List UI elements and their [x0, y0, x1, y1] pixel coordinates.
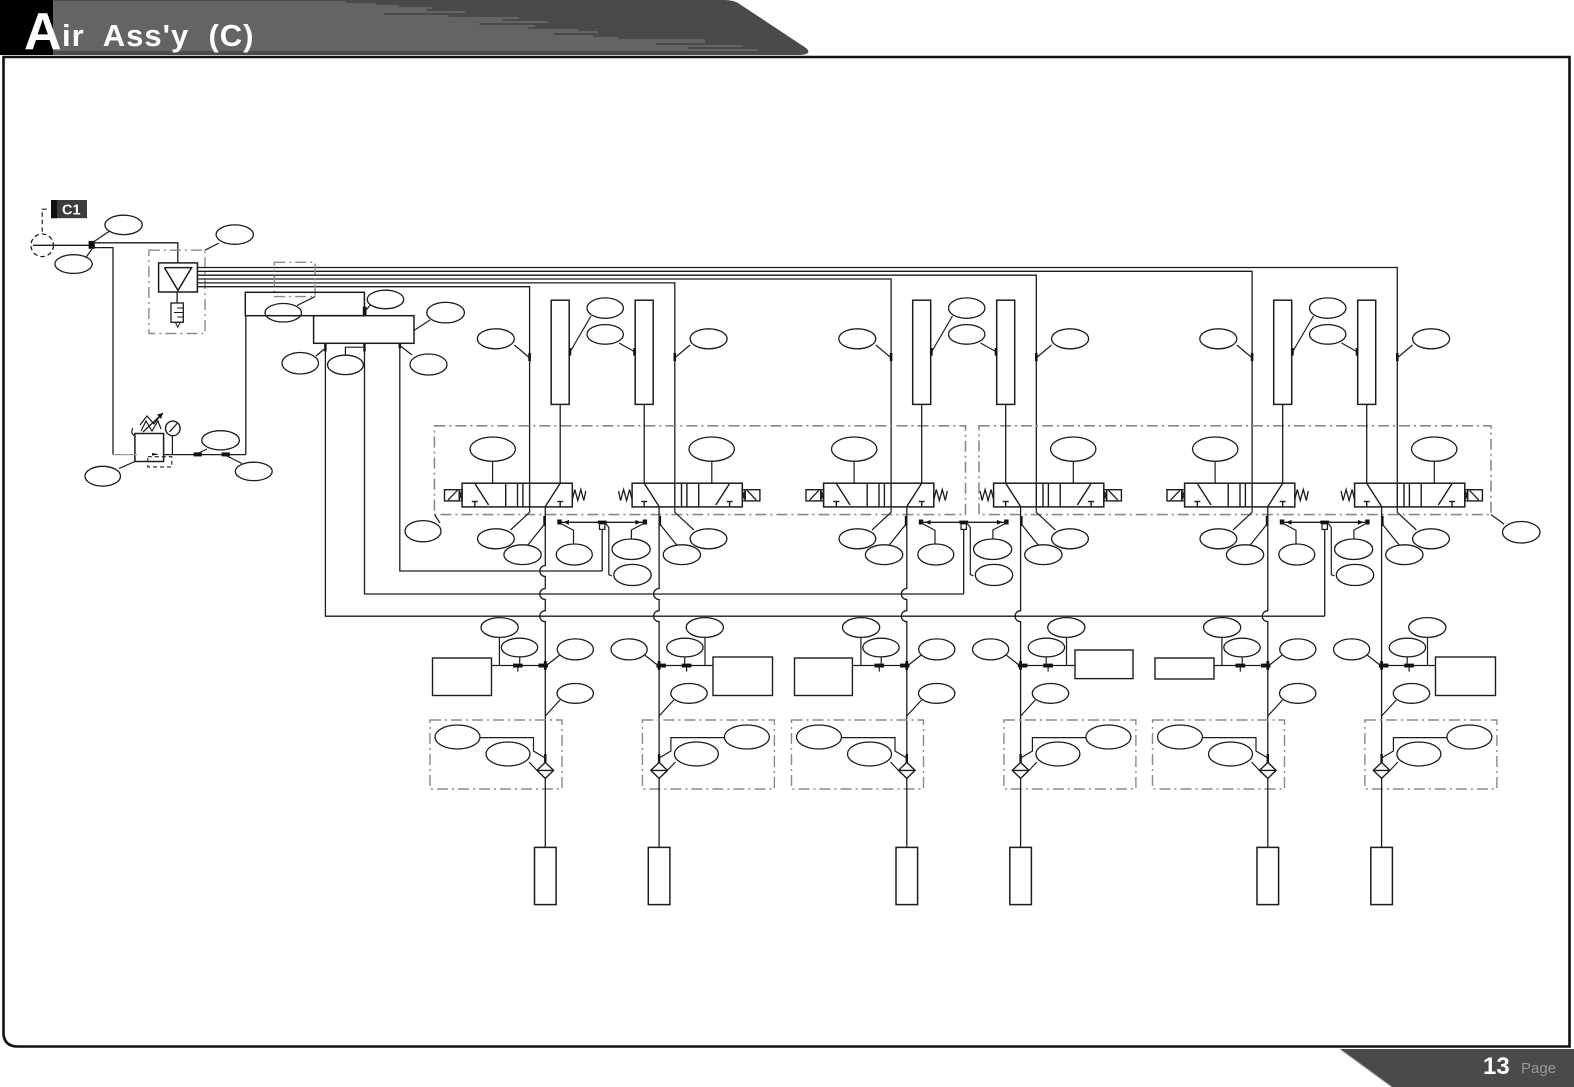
balloon (SC3 E)	[863, 638, 899, 663]
air unit body	[159, 263, 198, 292]
port stub SC4	[1047, 668, 1049, 672]
balloon (tube below SC4)	[1021, 684, 1069, 717]
svg-text:ir Ass'y (C): ir Ass'y (C)	[62, 18, 255, 53]
balloon (V6 exhaust a)	[1413, 529, 1450, 549]
balloon (V3 exhaust a)	[839, 529, 876, 549]
balloon (diamond 2 b)	[668, 742, 719, 770]
fitting (SC1 2)	[539, 664, 549, 668]
balloon (SC5 F)	[1270, 639, 1316, 665]
port fitting on base plate	[363, 307, 367, 316]
wire: V2 working line (down)	[654, 507, 660, 666]
balloon (SC2 E)	[667, 638, 703, 663]
manifold outlet fitting 3	[399, 343, 401, 348]
balloon (pair 2 R-line right lower)	[967, 524, 1012, 586]
balloon (diamond 2 a, elbow)	[660, 725, 770, 758]
balloon (SC6 D)	[1409, 618, 1446, 666]
fitting (above diamond 1)	[544, 754, 546, 762]
flow arrows pair 3	[1286, 520, 1292, 525]
balloon (V6 exhaust b)	[1386, 545, 1423, 565]
balloon (supply fitting V1)	[477, 329, 528, 357]
check valve diamond D1	[537, 762, 554, 778]
junction (V6 R-line)	[1365, 520, 1369, 525]
balloon (SC5 E)	[1224, 638, 1260, 663]
regulator REG1	[132, 413, 164, 462]
balloon (cylinder pair 1 lower)	[587, 325, 636, 356]
balloon (V2 exhaust a)	[690, 529, 727, 549]
wire: V4 working line (lower)	[1020, 666, 1022, 755]
fitting (above diamond 3)	[906, 754, 908, 762]
wire: V1 exhaust stub	[511, 507, 530, 530]
balloon (valve V2)	[689, 437, 734, 483]
fitting (SC3 2)	[900, 664, 910, 668]
balloon (group box A)	[405, 515, 441, 542]
cylinder CYL3	[913, 300, 931, 404]
balloon (pair 2 R-line left)	[918, 524, 954, 565]
fitting (outlet 1)	[194, 452, 202, 456]
wire: V4 port leader	[1021, 524, 1039, 546]
balloon (SC1 F)	[547, 639, 593, 665]
fitting (SC6 1)	[1404, 664, 1414, 668]
balloon (V1 exhaust a)	[478, 529, 515, 549]
silencer SL2	[648, 847, 670, 904]
fitting (V3 A-line)	[905, 516, 908, 526]
cylinder CYL5	[1274, 300, 1292, 404]
wire: V1 working line (down)	[540, 507, 546, 666]
check valve diamond D2	[651, 762, 668, 778]
balloon (outlet 1)	[282, 349, 324, 374]
balloon (outlet fitting 2)	[226, 456, 272, 481]
fitting (above diamond 4)	[1019, 754, 1021, 762]
header banner	[0, 0, 808, 61]
speed controller box SC4	[1075, 650, 1133, 679]
wire: V2 working line (lower)	[658, 666, 660, 755]
balloon (tube below SC3)	[907, 684, 955, 717]
balloon (SC6 E)	[1389, 638, 1425, 663]
wire: V5 working line (lower)	[1267, 666, 1269, 755]
speed controller SC5 line	[1214, 665, 1268, 667]
manifold base plate	[245, 292, 364, 315]
port stub SC1	[517, 668, 519, 672]
fitting (supply drop V4)	[1035, 353, 1038, 361]
wire: pair 3 R-port link	[1283, 521, 1367, 523]
balloon (cylinder pair 1 upper)	[569, 298, 624, 356]
valve V3 (5/2 solenoid valve)	[806, 483, 947, 507]
wire: pair 1 R-port link	[560, 521, 644, 523]
manifold outlet fitting 1	[324, 343, 326, 351]
junction (V4 R-line)	[1004, 520, 1008, 525]
tube bundle marker	[274, 262, 315, 296]
speed controller SC3 line	[853, 665, 907, 667]
wire: V1 working line (lower)	[544, 666, 546, 755]
flow arrows pair 2	[925, 520, 931, 525]
inlet fitting	[89, 241, 95, 249]
balloon (diamond 5 a, elbow)	[1158, 725, 1268, 758]
exhaust bus 3	[325, 352, 1324, 617]
fitting (outlet 2)	[222, 452, 230, 456]
wire: pair 3 exhaust to bus	[1324, 529, 1326, 616]
balloon (pair 1 R-line left)	[556, 524, 592, 565]
valve manifold group box B	[979, 426, 1491, 515]
wire: V2 port leader	[660, 524, 678, 546]
cylinder CYL1	[551, 300, 569, 404]
balloon (V4 exhaust b)	[1025, 545, 1062, 565]
valve V6 (5/2 solenoid valve)	[1341, 483, 1482, 507]
filter F1	[171, 303, 183, 327]
speed controller box SC6	[1436, 657, 1496, 696]
quick exhaust box L1	[430, 720, 562, 789]
fitting (above diamond 2)	[658, 754, 660, 762]
balloon (SC4 F)	[973, 639, 1019, 665]
wire: diamond 5 to silencer	[1267, 778, 1269, 847]
fitting (SC2 2)	[656, 664, 666, 668]
flow arrows pair 1	[564, 520, 570, 525]
balloon (air unit)	[205, 225, 253, 250]
cylinder CYL6	[1358, 300, 1376, 404]
quick exhaust box L3	[1153, 720, 1285, 789]
balloon (valve V5)	[1193, 437, 1238, 483]
balloon (V2 exhaust b)	[663, 545, 700, 565]
fitting (SC1 1)	[513, 664, 523, 668]
speed controller SC4 line	[1021, 665, 1075, 667]
wire: V5 working line (down)	[1262, 507, 1268, 666]
balloon (supply fitting V3)	[839, 329, 890, 357]
balloon (outlet 2, elbow leader)	[328, 347, 364, 374]
wire: pair 2 exhaust to bus	[963, 529, 965, 594]
balloon (diamond 1 b)	[486, 742, 537, 770]
port stub SC3	[878, 668, 880, 672]
wire: CYL1 to valve V1	[559, 404, 561, 483]
balloon (regulator)	[85, 462, 135, 487]
wire: V3 working line (lower)	[906, 666, 908, 755]
wire: diamond 1 to silencer	[544, 778, 546, 847]
svg-text:13: 13	[1483, 1053, 1510, 1080]
balloon (cylinder pair 3 upper)	[1291, 298, 1346, 356]
junction (V5 R-line)	[1280, 520, 1284, 525]
junction (V1 R-line)	[557, 520, 561, 525]
air supply unit U1 (enclosure)	[149, 250, 205, 333]
port stub SC6	[1408, 668, 1410, 672]
balloon (pair 3 R-line left)	[1279, 524, 1315, 565]
wire: diamond 4 to silencer	[1020, 778, 1022, 847]
wire: pair 1 exhaust to bus	[601, 529, 603, 571]
balloon (V4 exhaust a)	[1052, 529, 1089, 549]
valve V2 (5/2 solenoid valve)	[619, 483, 760, 507]
balloon (cylinder pair 3 lower)	[1310, 325, 1359, 356]
balloon (SC5 D)	[1204, 618, 1241, 666]
exhaust bus 1	[400, 348, 602, 571]
speed controller box SC3	[795, 658, 853, 696]
balloon (group box B)	[1491, 515, 1540, 543]
speed controller box SC2	[713, 657, 773, 696]
wire: riser to base plate	[245, 316, 247, 455]
manifold outlet fitting 2	[363, 343, 365, 351]
balloon (V1 exhaust b)	[504, 545, 541, 565]
fitting (V2 A-line)	[659, 516, 662, 526]
fitting (V6 A-line)	[1381, 516, 1384, 526]
exhaust bus 2	[365, 352, 964, 595]
air unit triangle	[164, 268, 191, 291]
silencer SL5	[1257, 847, 1279, 904]
speed controller SC2 line	[659, 665, 713, 667]
balloon (supply fitting V5)	[1200, 329, 1251, 357]
valve V1 (5/2 solenoid valve)	[445, 483, 586, 507]
balloon (tube below SC2)	[659, 684, 707, 717]
check valve diamond D5	[1260, 762, 1277, 778]
fitting (V4 A-line)	[1020, 516, 1023, 526]
balloon (tube below SC6)	[1382, 684, 1430, 717]
silencer SL1	[535, 847, 557, 904]
speed controller SC6 line	[1382, 665, 1436, 667]
valve manifold group box A	[434, 426, 965, 515]
wire: CYL2 to valve V2	[643, 404, 645, 483]
balloon (tube below SC1)	[545, 684, 593, 717]
fitting (SC4 1)	[1043, 664, 1053, 668]
wire: V5 exhaust stub	[1233, 507, 1252, 530]
speed controller box SC5	[1155, 658, 1214, 679]
supply tube bundle (6 lines)	[197, 268, 1397, 484]
svg-text:C1: C1	[62, 203, 81, 219]
wire: V3 exhaust stub	[872, 507, 891, 530]
wire: V1 port leader	[527, 524, 545, 546]
balloon (outlet 3)	[401, 347, 447, 376]
wire: regulator outlet line	[164, 454, 246, 456]
balloon (V5 exhaust a)	[1200, 529, 1237, 549]
wire: diamond 2 to silencer	[658, 778, 660, 847]
silencer SL4	[1010, 847, 1032, 904]
balloon (tube below SC5)	[1268, 684, 1316, 717]
page number banner	[1340, 1049, 1574, 1087]
air inlet port (dashed circle)	[31, 234, 54, 257]
speed controller box SC1	[433, 658, 492, 696]
wire: pair 2 R-port link	[922, 521, 1006, 523]
fitting (supply drop V1)	[528, 353, 531, 361]
quick exhaust box R3	[1365, 720, 1497, 789]
fitting (SC4 2)	[1018, 664, 1028, 668]
silencer SL3	[896, 847, 918, 904]
valve V4 (5/2 solenoid valve)	[980, 483, 1121, 507]
fitting (above diamond 5)	[1267, 754, 1269, 762]
wire: V4 working line (down)	[1015, 507, 1020, 666]
quick exhaust box R2	[1004, 720, 1136, 789]
check valve diamond D3	[899, 762, 916, 778]
balloon (diamond 1 a, elbow)	[435, 725, 545, 758]
wire: V2 exhaust stub	[675, 507, 694, 530]
wire: inlet to fitting	[33, 244, 89, 246]
wire: V3 port leader	[889, 524, 907, 546]
exhaust manifold block	[314, 316, 414, 344]
fitting (SC5 2)	[1261, 664, 1271, 668]
wire: fitting to regulator drop	[95, 248, 113, 455]
wire: regulator inlet segment	[113, 454, 137, 456]
wire: CYL5 to valve V5	[1282, 404, 1284, 483]
tee fitting pair 3	[1320, 521, 1329, 524]
wire: CYL6 to valve V6	[1366, 404, 1368, 483]
balloon (inlet fitting lower)	[55, 249, 92, 274]
balloon (diamond 3 a, elbow)	[797, 725, 907, 758]
balloon (SC2 D)	[686, 618, 723, 666]
fitting (SC6 2)	[1379, 664, 1389, 668]
balloon (pair 2 R-line right upper)	[974, 524, 1012, 560]
wire: unit to filter	[176, 292, 178, 303]
balloon (valve V1)	[470, 437, 515, 483]
fitting (supply drop V5)	[1251, 353, 1254, 361]
balloon (SC2 F)	[611, 639, 657, 665]
wire: V6 port leader	[1382, 524, 1400, 546]
port stub SC2	[686, 668, 688, 672]
balloon (cylinder pair 2 upper)	[930, 298, 985, 356]
balloon (supply fitting V4)	[1037, 329, 1088, 357]
quick exhaust box L2	[792, 720, 924, 789]
balloon (pair 1 R-line right lower)	[606, 524, 651, 586]
port stub SC5	[1239, 668, 1241, 672]
dashed leader to C1	[42, 209, 46, 233]
balloon (pair 1 R-line right upper)	[612, 524, 650, 560]
cylinder CYL4	[997, 300, 1015, 404]
fitting (supply drop V2)	[674, 353, 677, 361]
balloon (V3 exhaust b)	[865, 545, 902, 565]
wire: V5 port leader	[1250, 524, 1268, 546]
balloon (base plate port)	[367, 290, 404, 309]
balloon (outlet fitting 1)	[198, 431, 240, 454]
fitting (supply drop V6)	[1396, 353, 1399, 361]
fitting (SC2 1)	[682, 664, 692, 668]
balloon (diamond 5 b)	[1209, 742, 1260, 770]
valve V5 (5/2 solenoid valve)	[1167, 483, 1308, 507]
cylinder CYL2	[635, 300, 653, 404]
speed controller SC1 line	[492, 665, 546, 667]
balloon (valve V4)	[1051, 437, 1096, 483]
balloon (diamond 4 b)	[1029, 742, 1080, 770]
fitting (SC3 1)	[875, 664, 885, 668]
balloon (diamond 3 b)	[848, 742, 899, 770]
check valve diamond D4	[1012, 762, 1029, 778]
fitting (V1 A-line)	[543, 516, 546, 526]
balloon (SC1 E)	[501, 638, 537, 663]
balloon (valve V3)	[832, 437, 877, 483]
quick exhaust box R1	[642, 720, 774, 789]
fitting (supply drop V3)	[890, 353, 893, 361]
balloon (diamond 4 a, elbow)	[1021, 725, 1131, 758]
balloon (manifold right)	[414, 302, 464, 330]
check valve diamond D6	[1373, 762, 1390, 778]
wire: CYL3 to valve V3	[921, 404, 923, 483]
balloon (supply fitting V2)	[676, 329, 727, 357]
wire: fitting to air unit	[95, 243, 178, 263]
regulator dashed box	[148, 457, 172, 467]
balloon (SC3 F)	[909, 639, 955, 665]
balloon (pair 3 R-line right lower)	[1328, 524, 1373, 586]
balloon (SC4 D)	[1048, 618, 1085, 666]
pressure gauge G1	[166, 421, 181, 454]
fitting (above diamond 6)	[1380, 754, 1382, 762]
balloon (supply fitting V6)	[1398, 329, 1449, 357]
wire: V3 working line (down)	[901, 507, 907, 666]
wire: V4 exhaust stub	[1036, 507, 1055, 530]
balloon (SC3 D)	[843, 618, 880, 666]
balloon (pair 3 R-line right upper)	[1335, 524, 1373, 560]
wire: V6 working line (lower)	[1381, 666, 1383, 755]
junction (V2 R-line)	[643, 520, 647, 525]
balloon (inlet fitting upper)	[93, 215, 142, 242]
wire: V6 working line (down)	[1381, 507, 1383, 666]
silencer SL6	[1371, 847, 1393, 904]
wire: diamond 3 to silencer	[906, 778, 908, 847]
tee fitting pair 2	[959, 521, 968, 524]
balloon (cylinder pair 2 lower)	[949, 325, 998, 356]
fitting (SC5 1)	[1236, 664, 1246, 668]
wire: V6 exhaust stub	[1397, 507, 1416, 530]
junction (V3 R-line)	[919, 520, 923, 525]
balloon (diamond 6 b)	[1390, 742, 1441, 770]
connector label C1	[51, 200, 87, 219]
tee fitting pair 1	[598, 521, 607, 524]
wire: CYL4 to valve V4	[1005, 404, 1007, 483]
wire: diamond 6 to silencer	[1381, 778, 1383, 847]
balloon (SC6 F)	[1334, 639, 1380, 665]
fitting (V5 A-line)	[1266, 516, 1269, 526]
balloon (diamond 6 a, elbow)	[1382, 725, 1492, 758]
balloon (tube bundle)	[265, 297, 315, 322]
svg-text:Page: Page	[1521, 1060, 1556, 1077]
balloon (valve V6)	[1412, 437, 1457, 483]
balloon (SC1 D)	[481, 618, 518, 666]
balloon (V5 exhaust b)	[1226, 545, 1263, 565]
balloon (SC4 E)	[1028, 638, 1064, 663]
svg-text:A: A	[24, 3, 62, 61]
